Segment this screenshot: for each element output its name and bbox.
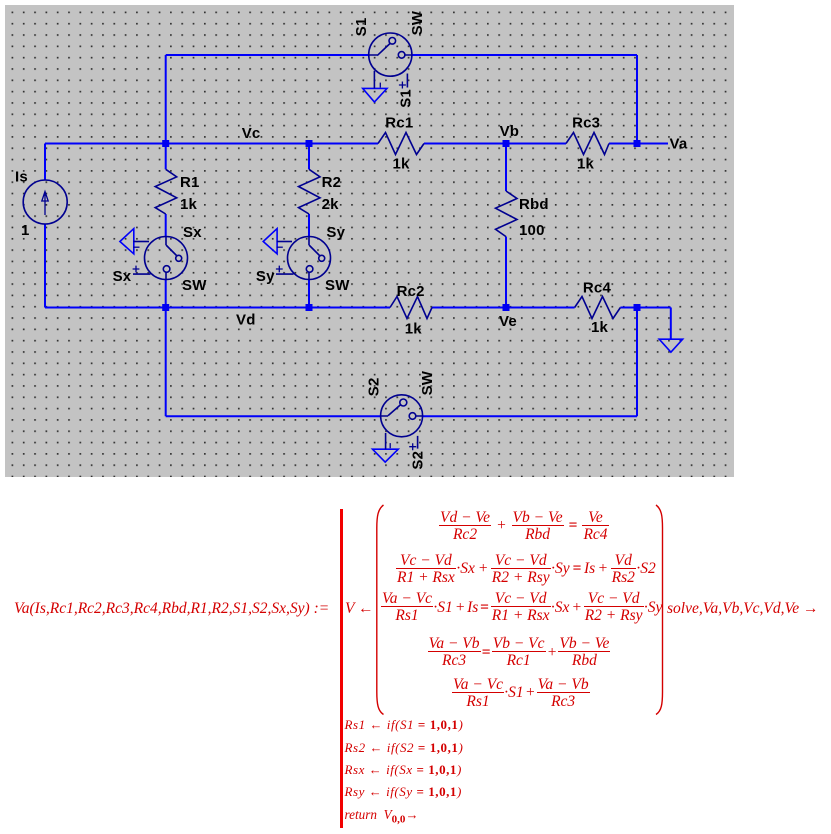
svg-text:R1: R1	[180, 174, 200, 191]
svg-text:S1: S1	[353, 17, 370, 36]
svg-text:SW: SW	[182, 277, 207, 294]
svg-text:Rbd: Rbd	[519, 196, 549, 213]
svg-text:S1: S1	[398, 89, 415, 108]
svg-text:Rc2: Rc2	[397, 283, 425, 300]
svg-text:Vb: Vb	[500, 123, 520, 140]
svg-text:Ve: Ve	[499, 313, 517, 330]
svg-text:SW: SW	[419, 370, 436, 395]
svg-text:1k: 1k	[577, 155, 595, 172]
svg-text:S2: S2	[366, 377, 383, 396]
svg-text:Sy: Sy	[326, 224, 345, 241]
svg-text:1k: 1k	[180, 196, 198, 213]
svg-text:1k: 1k	[405, 320, 423, 337]
svg-text:Rc4: Rc4	[583, 279, 612, 296]
svg-text:SW: SW	[409, 10, 426, 35]
svg-text:Vc: Vc	[242, 125, 261, 142]
svg-text:Rc1: Rc1	[385, 115, 413, 132]
svg-text:SW: SW	[325, 277, 350, 294]
svg-text:1k: 1k	[591, 319, 609, 336]
svg-text:Va: Va	[670, 136, 688, 153]
svg-text:100: 100	[519, 222, 545, 239]
svg-text:S2: S2	[410, 451, 427, 470]
svg-text:2k: 2k	[322, 196, 340, 213]
svg-text:Sx: Sx	[113, 268, 132, 285]
svg-text:Is: Is	[15, 169, 28, 186]
svg-text:Sy: Sy	[256, 268, 275, 285]
svg-text:1: 1	[21, 222, 30, 239]
svg-text:Rc3: Rc3	[572, 115, 600, 132]
svg-text:1k: 1k	[393, 156, 411, 173]
svg-text:R2: R2	[322, 174, 342, 191]
svg-text:Sx: Sx	[183, 224, 202, 241]
svg-text:Vd: Vd	[236, 311, 256, 328]
